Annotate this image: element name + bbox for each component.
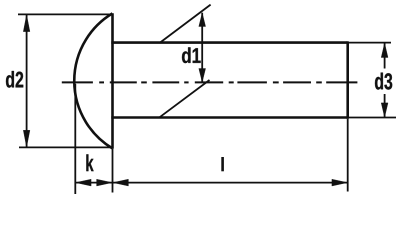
centerline dash segment 9 <box>237 81 267 83</box>
rivet head dome arc <box>74 13 112 148</box>
dimension l line <box>113 182 348 184</box>
rivet head flat face <box>111 13 114 148</box>
label k <box>86 154 93 171</box>
label d1 <box>182 47 201 63</box>
dimension l arrow left <box>113 179 129 186</box>
extension line d3 top <box>348 42 391 44</box>
centerline dot segment 12 <box>316 81 322 83</box>
extension line k left at dome apex <box>74 84 76 194</box>
dimension d2 line <box>26 15 28 147</box>
centerline dot segment 2 <box>99 81 104 83</box>
dimension k arrow left <box>76 179 92 186</box>
dimension d3 line lower <box>384 94 386 117</box>
extension line bottom of head (d2) <box>19 146 112 148</box>
shank right end edge <box>346 41 349 118</box>
shank bottom edge <box>111 116 347 119</box>
centerline dash segment 11 <box>283 81 311 83</box>
centerline dot segment 8 <box>229 81 234 83</box>
dimension d1 arrow down <box>199 69 206 83</box>
dimension d2 arrow down <box>23 130 30 147</box>
label l <box>221 157 224 171</box>
dimension d1 line <box>201 13 203 82</box>
extension line under head face <box>112 149 114 193</box>
centerline dot segment 10 <box>273 81 279 83</box>
centerline dot segment 6 <box>184 81 188 83</box>
dimension d2 arrow up <box>23 15 30 32</box>
centerline dot segment 4 <box>141 81 147 83</box>
extension line top of head (d2) <box>18 13 112 15</box>
label d2 <box>6 71 23 88</box>
centerline dash segment 7 <box>195 81 223 83</box>
centerline dash segment 5 <box>152 81 179 83</box>
oblique extension line d1 bottom <box>160 80 210 117</box>
dimension d3 line upper <box>384 43 386 68</box>
extension line d3 bottom <box>348 117 396 119</box>
shank top edge <box>111 41 347 44</box>
centerline dash segment 13 <box>326 81 357 83</box>
oblique extension line d1 top <box>160 5 211 43</box>
centerline dash segment 3 <box>110 81 137 83</box>
centerline dash segment 1 <box>62 81 93 83</box>
dimension d1 arrow up <box>199 13 206 27</box>
dimension d3 arrow up <box>381 43 388 58</box>
extension line l right under shank end <box>347 119 349 192</box>
dimension k line <box>76 182 113 184</box>
dimension d3 arrow down <box>381 103 388 118</box>
dimension l arrow right <box>332 179 348 186</box>
dimension k arrow right <box>97 179 113 186</box>
label d3 <box>375 73 392 90</box>
